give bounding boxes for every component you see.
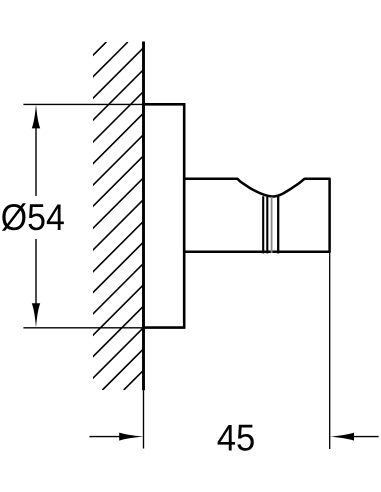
dim 45 right tail bbox=[352, 436, 379, 438]
dim 45 extension line right bbox=[329, 253, 331, 450]
dim Ø54 line upper segment bbox=[35, 126, 37, 196]
dim 45 left tail bbox=[90, 436, 122, 438]
waist contour line 3 (light) bbox=[271, 197, 273, 253]
dim 45 right arrow (points left) bbox=[330, 433, 354, 441]
svg-text:45: 45 bbox=[217, 417, 256, 458]
dim Ø54 extension line top bbox=[23, 103, 143, 105]
dim Ø54 arrow down bbox=[32, 303, 40, 327]
wall face line bbox=[142, 42, 145, 391]
hook body outline bbox=[184, 179, 329, 252]
wall face extension line (45 dim, left) bbox=[143, 390, 145, 448]
dim Ø54 extension line bottom bbox=[23, 327, 143, 329]
dim Ø54 line lower segment bbox=[35, 239, 37, 305]
mounting plate (flange) bbox=[144, 104, 185, 327]
dim 45 left arrow (points right) bbox=[119, 433, 143, 441]
waist contour line 2 bbox=[266, 196, 268, 253]
dim Ø54 arrow up bbox=[32, 104, 40, 128]
waist contour line 4 bbox=[277, 196, 279, 253]
wall hatching bbox=[0, 42, 381, 390]
svg-text:Ø54: Ø54 bbox=[1, 197, 65, 238]
waist contour line 1 bbox=[262, 196, 264, 253]
